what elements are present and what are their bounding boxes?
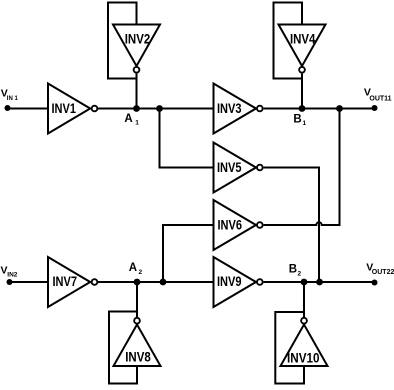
junction node B2 (301, 279, 308, 286)
svg-text:A: A (124, 113, 132, 125)
op-amp U INV10 triangle (281, 325, 328, 367)
wire VIN2 to INV7 input (10, 281, 49, 283)
wire INV5 output down to B2 rail (264, 168, 319, 283)
wire INV9 output to VOUT22 terminal (node B2 rail) (264, 281, 375, 283)
svg-text:INV8: INV8 (125, 350, 151, 365)
terminal VIN2 (7, 279, 13, 285)
terminal VOUT11 (372, 105, 378, 111)
wire node B2 down to INV10 output (303, 282, 305, 317)
wire INV10 feedback loop (275, 312, 304, 384)
junction node A1 (133, 105, 140, 112)
svg-text:OUT22: OUT22 (372, 269, 394, 276)
wire INV8 feedback loop (109, 312, 137, 384)
svg-text:2: 2 (139, 269, 143, 276)
bubble INV7 output (92, 279, 98, 285)
op-amp U INV4 triangle (279, 25, 326, 67)
junction A1 rail to INV5 (156, 105, 163, 112)
wire INV2 output down to node A1 (136, 74, 138, 109)
svg-text:INV7: INV7 (53, 274, 78, 289)
svg-text:INV1: INV1 (52, 101, 77, 116)
svg-text:2: 2 (298, 271, 302, 278)
wire INV7 output to INV9 input (node A2 rail) (98, 281, 214, 283)
bubble INV1 output (92, 106, 98, 112)
svg-text:B: B (293, 114, 301, 126)
svg-text:A: A (129, 262, 137, 274)
svg-text:INV5: INV5 (217, 160, 242, 175)
wire INV4 feedback loop (274, 3, 303, 79)
op-amp U INV3 triangle (214, 84, 257, 134)
svg-text:1: 1 (135, 120, 139, 127)
svg-text:1: 1 (303, 120, 307, 127)
svg-text:INV6: INV6 (218, 217, 243, 232)
wire INV6 output up to B1 rail (with hop over INV5 wire) (264, 109, 340, 226)
terminal VOUT22 (372, 280, 378, 286)
bubble INV10 output (301, 318, 307, 324)
junction B1 rail from INV6 (336, 105, 343, 112)
svg-text:IN2: IN2 (7, 272, 17, 279)
svg-text:B: B (289, 264, 297, 276)
wire A1 rail down to INV5 input (160, 109, 214, 168)
svg-text:INV2: INV2 (125, 32, 151, 47)
svg-text:INV9: INV9 (217, 274, 242, 289)
terminal VIN1 (5, 105, 11, 111)
junction node A2 (134, 279, 141, 286)
svg-text:INV10: INV10 (287, 351, 320, 366)
bubble INV6 output (257, 222, 263, 228)
bubble INV4 output (299, 67, 305, 73)
op-amp U INV5 triangle (214, 143, 257, 193)
op-amp U INV1 triangle (48, 84, 90, 134)
junction node B1 (299, 105, 306, 112)
wire INV3 output to VOUT11 terminal (node B1 rail) (264, 108, 375, 110)
bubble INV5 output (257, 165, 263, 171)
wire A2 rail up to INV6 input (163, 225, 214, 282)
svg-text:INV4: INV4 (290, 32, 316, 47)
svg-text:OUT11: OUT11 (369, 95, 391, 102)
op-amp U INV9 triangle (214, 257, 257, 307)
op-amp U INV8 triangle (114, 325, 161, 367)
op-amp U INV6 triangle (214, 200, 257, 250)
junction A2 rail to INV6 (160, 279, 167, 286)
bubble INV3 output (257, 106, 263, 112)
bubble INV9 output (257, 279, 263, 285)
wire INV1 output to INV3 input (node A1 rail) (98, 108, 214, 110)
wire node A2 down to INV8 output (136, 282, 138, 317)
op-amp U INV2 triangle (113, 25, 160, 67)
svg-text:IN 1: IN 1 (7, 96, 19, 102)
op-amp U INV7 triangle (48, 257, 90, 307)
wire INV4 output down to node B1 (301, 74, 303, 109)
wire INV2 feedback loop (108, 3, 137, 79)
wire VIN1 to INV1 input (8, 108, 49, 110)
bubble INV8 output (134, 318, 140, 324)
svg-text:INV3: INV3 (217, 101, 242, 116)
bubble INV2 output (134, 67, 140, 73)
junction B2 rail from INV5 (316, 279, 323, 286)
